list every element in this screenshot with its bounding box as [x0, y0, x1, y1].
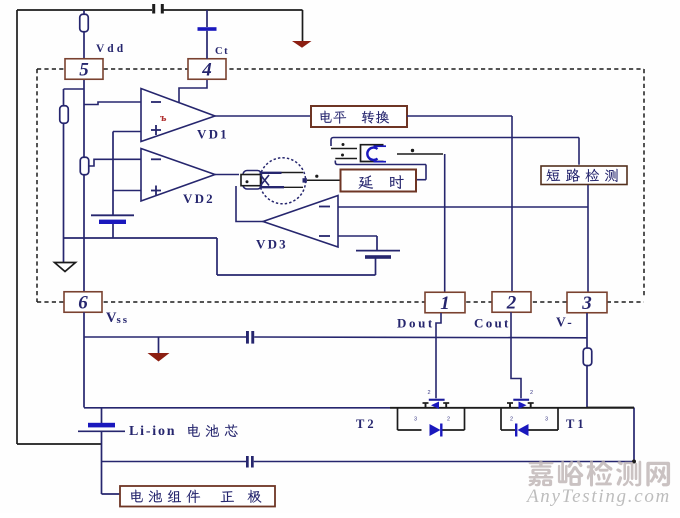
svg-text:2: 2 [530, 390, 533, 396]
svg-text:VD2: VD2 [183, 191, 215, 206]
svg-text:2: 2 [506, 293, 517, 314]
svg-text:V-: V- [556, 315, 574, 330]
svg-text:2: 2 [428, 390, 431, 396]
svg-text:Vdd: Vdd [96, 43, 126, 55]
svg-text:2: 2 [510, 417, 513, 423]
svg-text:Li-ion: Li-ion [129, 424, 176, 439]
svg-text:T1: T1 [566, 417, 587, 431]
svg-text:5: 5 [79, 60, 89, 81]
svg-text:AnyTesting.com: AnyTesting.com [525, 486, 671, 507]
svg-text:6: 6 [78, 293, 88, 314]
svg-text:Ct: Ct [215, 46, 229, 57]
svg-text:3: 3 [581, 293, 592, 314]
svg-text:3: 3 [545, 417, 548, 423]
svg-text:4: 4 [201, 60, 212, 81]
svg-text:Cout: Cout [474, 316, 511, 331]
svg-text:T2: T2 [356, 417, 377, 431]
svg-text:ъ: ъ [160, 112, 167, 124]
svg-text:VD3: VD3 [256, 237, 288, 252]
svg-text:1: 1 [440, 293, 450, 314]
svg-text:3: 3 [414, 417, 417, 423]
svg-text:VD1: VD1 [197, 127, 229, 142]
svg-text:2: 2 [447, 417, 450, 423]
svg-text:Dout: Dout [397, 316, 435, 331]
